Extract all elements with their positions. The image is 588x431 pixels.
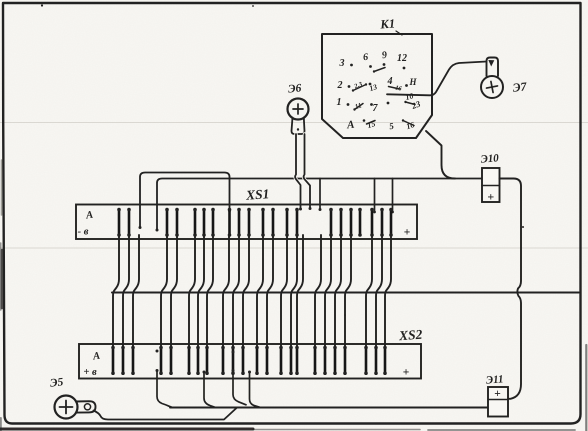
svg-text:+: + xyxy=(404,227,411,239)
svg-text:А: А xyxy=(345,119,355,132)
svg-text:1: 1 xyxy=(337,97,342,108)
svg-text:Э7: Э7 xyxy=(512,79,528,94)
svg-text:+: + xyxy=(403,367,410,379)
svg-text:2: 2 xyxy=(337,80,343,91)
svg-text:ХS2: ХS2 xyxy=(398,327,423,344)
svg-text:ХS1: ХS1 xyxy=(245,186,270,203)
svg-text:А: А xyxy=(84,210,93,222)
svg-text:Э11: Э11 xyxy=(485,373,504,386)
svg-text:К1: К1 xyxy=(379,17,396,32)
svg-text:4: 4 xyxy=(387,76,393,87)
svg-text:3: 3 xyxy=(339,58,345,69)
svg-text:+ в: + в xyxy=(83,367,97,378)
svg-text:+: + xyxy=(494,388,501,400)
svg-text:Э6: Э6 xyxy=(288,82,302,95)
svg-text:Э10: Э10 xyxy=(480,152,500,166)
svg-text:А: А xyxy=(91,351,100,363)
svg-text:Н: Н xyxy=(408,77,417,87)
svg-text:+: + xyxy=(487,190,494,204)
svg-text:- в: - в xyxy=(78,227,89,238)
svg-text:12: 12 xyxy=(397,53,407,64)
svg-text:Э5: Э5 xyxy=(49,376,64,389)
